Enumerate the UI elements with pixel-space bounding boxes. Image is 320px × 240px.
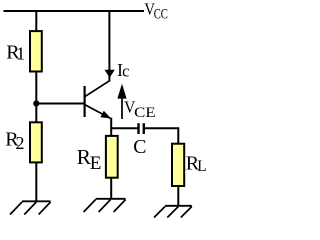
svg-text:CE: CE bbox=[134, 105, 156, 121]
svg-text:c: c bbox=[122, 61, 129, 80]
svg-text:L: L bbox=[197, 158, 206, 175]
label VCE bbox=[124, 97, 156, 121]
transistor Q1 collector stroke bbox=[85, 81, 109, 97]
wire R1 bottom bbox=[35, 72, 37, 104]
transistor Q1 emitter stroke with arrow bbox=[85, 105, 111, 119]
wire capacitor to RL bbox=[145, 128, 178, 143]
label R1 bbox=[6, 41, 25, 63]
wire RL bottom bbox=[177, 187, 179, 206]
wire RE bottom bbox=[110, 178, 112, 199]
svg-text:1: 1 bbox=[16, 44, 25, 64]
label RE bbox=[77, 145, 102, 174]
wire base bbox=[36, 103, 84, 105]
label Ic bbox=[117, 60, 129, 81]
ground middle bbox=[84, 199, 126, 212]
wire Vcc rail bbox=[4, 10, 145, 12]
resistor RL bbox=[172, 144, 184, 186]
wire R2 top bbox=[35, 104, 37, 123]
label R2 bbox=[5, 129, 24, 153]
node base junction bbox=[33, 100, 39, 106]
svg-text:C: C bbox=[133, 136, 146, 158]
svg-text:CC: CC bbox=[154, 6, 168, 22]
wire R2 bottom bbox=[35, 163, 37, 202]
svg-text:E: E bbox=[90, 153, 102, 174]
transistor Q1 base bar bbox=[83, 86, 85, 117]
arrow VCE bbox=[117, 84, 126, 119]
ground right bbox=[154, 206, 192, 218]
resistor R1 bbox=[30, 31, 42, 71]
wire R1 top bbox=[35, 11, 37, 31]
wire emitter corner bbox=[111, 118, 138, 129]
arrow Ic bbox=[105, 70, 115, 78]
label Vcc bbox=[144, 0, 168, 22]
resistor RE bbox=[106, 136, 118, 178]
wire RE top bbox=[110, 128, 112, 135]
label RL bbox=[186, 152, 207, 175]
svg-text:2: 2 bbox=[16, 133, 25, 153]
resistor R2 bbox=[30, 122, 42, 162]
capacitor C plates bbox=[139, 123, 144, 134]
wire collector vertical bbox=[108, 11, 110, 82]
ground left bbox=[10, 201, 51, 214]
